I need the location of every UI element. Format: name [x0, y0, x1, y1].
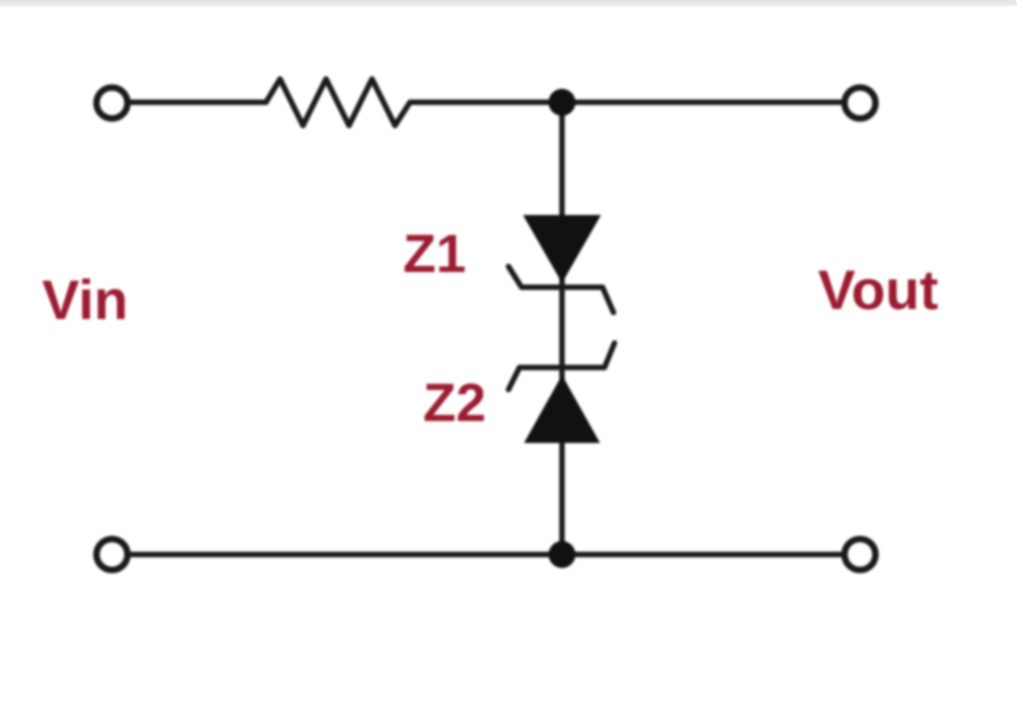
wire top-left [129, 100, 266, 106]
resistor R1 [266, 79, 410, 126]
terminal Vout top [845, 88, 876, 119]
svg-text:Vin: Vin [42, 268, 128, 331]
zener diode Z2 cathode bar [509, 343, 615, 390]
svg-text:Vout: Vout [818, 258, 938, 321]
node junction bottom [549, 541, 576, 568]
svg-text:Z1: Z1 [403, 224, 466, 284]
zener diode Z1 cathode bar [509, 267, 614, 313]
node junction top [549, 89, 576, 116]
wire top-right [410, 100, 843, 106]
wire bottom [129, 552, 843, 558]
svg-text:Z2: Z2 [423, 373, 486, 433]
zener diode Z1 triangle [523, 215, 601, 283]
zener diode Z2 triangle [524, 375, 600, 443]
terminal Vin top [97, 88, 128, 119]
wire vertical shunt branch [559, 102, 565, 554]
top border line [0, 0, 1017, 7]
terminal Vout bottom [845, 539, 876, 570]
terminal Vin bottom [97, 539, 128, 570]
